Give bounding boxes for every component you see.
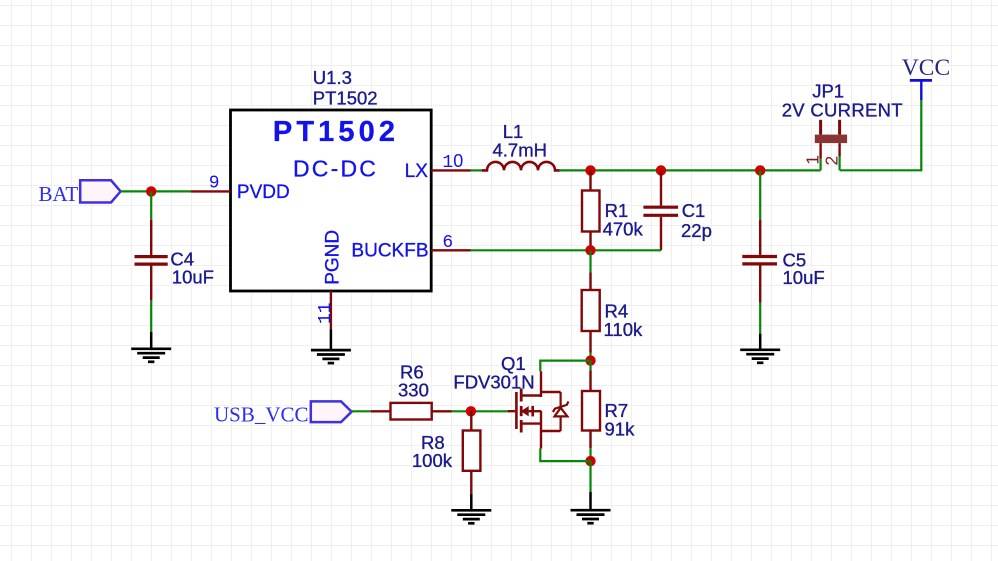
wire JP1 pin2 to VCC	[840, 100, 922, 170]
svg-text:22p: 22p	[681, 220, 712, 241]
capacitor C4	[135, 220, 214, 301]
ground R8	[451, 494, 491, 524]
ground C4	[131, 332, 171, 362]
IC U1.3 PT1502	[231, 67, 432, 291]
wire R4 bottom to node	[589, 353, 591, 361]
svg-text:470k: 470k	[603, 218, 644, 239]
wire C4 to ground	[150, 301, 152, 332]
svg-text:PGND: PGND	[322, 230, 343, 285]
zener diode of Q1	[553, 392, 569, 431]
svg-text:U1.3: U1.3	[313, 67, 352, 88]
resistor R1	[582, 170, 643, 250]
wire node to ground	[589, 461, 591, 492]
junction node R4/R7/Q1 drain	[585, 355, 595, 365]
svg-text:LX: LX	[405, 161, 429, 182]
junction node BUCKFB/R1/R4	[585, 245, 595, 255]
svg-text:100k: 100k	[412, 450, 453, 471]
capacitor C1	[643, 170, 711, 250]
svg-text:FDV301N: FDV301N	[453, 372, 534, 393]
ground R7/Q1	[571, 492, 611, 523]
port BAT	[39, 180, 121, 206]
svg-text:PT1502: PT1502	[273, 116, 399, 148]
pin 6 BUCKFB	[351, 233, 470, 261]
pin 9 PVDD	[191, 174, 290, 203]
svg-text:BAT: BAT	[39, 182, 79, 206]
svg-text:BUCKFB: BUCKFB	[351, 240, 428, 261]
wire USB_VCC to R6	[352, 410, 371, 412]
svg-text:11: 11	[316, 302, 336, 324]
capacitor C5	[742, 170, 824, 302]
junction node R6/R8/Q1 gate	[466, 406, 476, 416]
wire Q1 drain	[540, 361, 590, 372]
svg-text:10: 10	[442, 151, 463, 173]
svg-text:PT1502: PT1502	[313, 88, 378, 109]
svg-text:DC-DC: DC-DC	[293, 156, 378, 182]
ground PGND	[311, 329, 351, 363]
resistor R6	[371, 362, 452, 420]
wire BAT to PVDD	[121, 190, 191, 192]
resistor R7	[582, 371, 635, 449]
wire Q1 source	[540, 449, 590, 462]
svg-text:PVDD: PVDD	[237, 182, 290, 203]
wire R4 top	[589, 250, 591, 272]
junction node BAT/C4	[146, 186, 156, 196]
wire junction to C4	[150, 191, 152, 219]
wire R7 bottom to node	[589, 448, 591, 461]
junction node C1 top	[656, 165, 666, 175]
svg-text:C1: C1	[682, 200, 706, 221]
port USB_VCC	[214, 401, 352, 426]
svg-text:91k: 91k	[605, 418, 636, 439]
wire C5 to ground	[759, 303, 761, 334]
pin 11 PGND	[316, 230, 343, 329]
resistor R8	[412, 411, 481, 493]
wire L1 to JP1 (main LX net)	[560, 169, 821, 171]
pin 10 LX	[405, 151, 471, 182]
junction node R1 top	[585, 165, 595, 175]
resistor R4	[582, 273, 643, 353]
ground C5	[740, 334, 780, 363]
svg-text:6: 6	[442, 233, 453, 253]
junction node R7/Q1 source	[585, 456, 595, 466]
wire LX to L1	[471, 169, 482, 171]
svg-text:VCC: VCC	[902, 55, 950, 81]
svg-text:9: 9	[209, 174, 220, 194]
svg-text:10uF: 10uF	[172, 266, 214, 287]
svg-text:10uF: 10uF	[783, 267, 825, 288]
wire BUCKFB net	[471, 249, 662, 251]
junction node C5 top	[755, 165, 765, 175]
svg-text:USB_VCC: USB_VCC	[214, 402, 309, 426]
svg-text:110k: 110k	[604, 319, 643, 340]
power port VCC	[902, 55, 950, 100]
svg-text:2V CURRENT: 2V CURRENT	[782, 99, 903, 120]
transistor Q1 FDV301N	[453, 353, 560, 448]
inductor L1	[482, 121, 560, 171]
wire R6 to Q1 gate	[452, 410, 508, 412]
svg-text:4.7mH: 4.7mH	[493, 139, 548, 160]
jumper JP1	[782, 81, 903, 166]
wire R7 top	[589, 361, 591, 371]
svg-text:330: 330	[398, 380, 429, 401]
wire JP1 pin1	[819, 159, 821, 171]
